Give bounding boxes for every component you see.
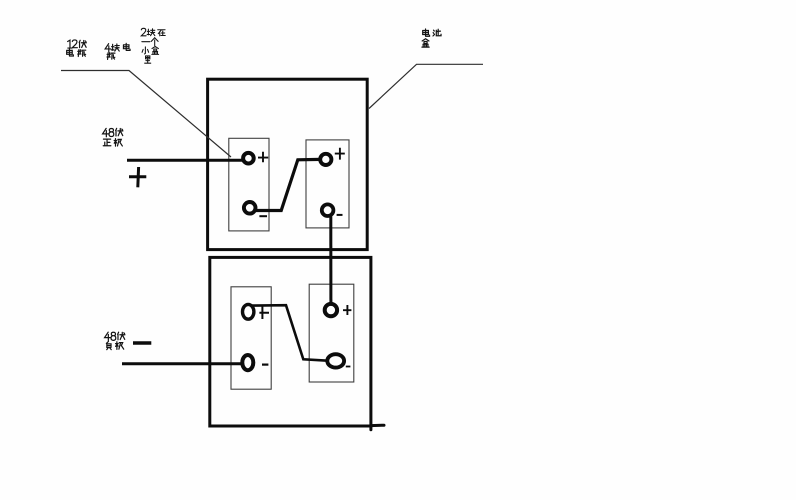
terminal B1 + ring (243, 153, 254, 164)
leader line: battery labels to B1 (61, 71, 231, 158)
terminal B2 + ring (320, 154, 331, 165)
label: 48伏正极 (48V positive pole) (103, 128, 123, 146)
terminal B2 + sign (335, 148, 345, 160)
battery B4 case (bottom-right 12V battery) (309, 284, 354, 382)
terminal B3 - sign (262, 364, 268, 366)
wire: B3 + to B4 - (zigzag link, lower) (252, 305, 328, 361)
terminal B2 - sign (337, 214, 343, 216)
battery box: lower compartment outline (210, 257, 371, 426)
terminal B1 - ring (244, 202, 256, 214)
label: 电池盒 (battery box) (422, 29, 441, 47)
terminal B4 - sign (346, 366, 351, 368)
wire: B1 - to B2 + (zigzag link, upper) (255, 159, 321, 210)
battery box: upper compartment outline (208, 79, 368, 249)
wire: B2 - down to B4 + (vertical through divider) (329, 217, 332, 305)
battery box: bottom edge extension stroke (371, 425, 384, 430)
terminal B4 - ring (327, 354, 344, 367)
label: 48伏负极 (48V negative pole) (105, 332, 125, 349)
symbol: big minus (48V negative) (133, 341, 151, 345)
terminal B1 - sign (259, 215, 267, 217)
battery B3 case (bottom-left 12V battery) (231, 287, 271, 389)
wire: external 48V positive lead to B1 + (127, 159, 243, 162)
terminal B3 + sign (259, 306, 269, 319)
label: 4块电瓶 (4 batteries) (105, 43, 130, 59)
wire: external 48V negative lead to B3 - (122, 362, 242, 365)
terminal B3 + ring (243, 304, 254, 319)
terminal B2 - ring (322, 204, 334, 216)
terminal B4 + sign (343, 305, 351, 315)
terminal B3 - ring (242, 355, 253, 370)
symbol: big plus (48V positive) (129, 167, 146, 187)
label: 2块在一个小盒里 (2 per small box) (141, 28, 165, 63)
terminal B1 + sign (258, 152, 268, 162)
leader line: battery-box label to box corner (369, 64, 483, 108)
battery B2 case (top-right 12V battery) (306, 140, 349, 228)
battery B1 case (top-left 12V battery) (229, 138, 269, 231)
terminal B4 + ring (325, 304, 337, 316)
label: 12伏电瓶 (12V battery) (67, 40, 87, 57)
